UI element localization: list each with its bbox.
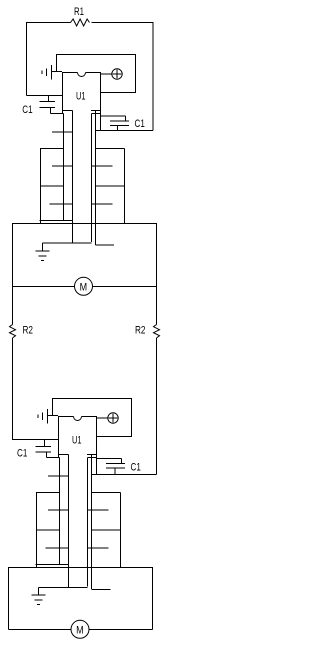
svg-text:M: M <box>80 282 88 294</box>
wire housing box top U1b <box>52 398 132 400</box>
svg-text:R2: R2 <box>23 325 34 337</box>
resistor R2 left <box>10 325 16 339</box>
connector tooth t4 right <box>92 203 113 205</box>
connector tooth t1 left <box>40 148 64 150</box>
wire neck rail B' right (top block) <box>95 111 97 246</box>
wire right vertical of R1 loop <box>152 23 154 131</box>
svg-text:C1: C1 <box>131 461 141 473</box>
wire bus stub right (top chassis) <box>96 244 115 246</box>
svg-text:U1: U1 <box>76 91 86 103</box>
svg-text:C1: C1 <box>135 118 145 130</box>
wire housing box left edge U1a <box>56 55 58 73</box>
box chassis (bottom block) <box>9 568 153 630</box>
wire ground to U1b pin <box>48 415 59 417</box>
svg-text:R1: R1 <box>74 6 84 18</box>
motor M (bottom) <box>71 620 89 638</box>
wire neck rail B left (bottom block) <box>59 458 61 565</box>
connector tooth t3 right <box>96 185 125 187</box>
svg-text:C1: C1 <box>17 447 27 459</box>
op-amp U1 (top IC body) <box>63 73 101 111</box>
power terminal plus U1a <box>112 69 122 79</box>
connector tooth t3 left b <box>36 529 60 531</box>
connector tooth t5 left <box>40 220 73 222</box>
connector tooth t2 right b <box>88 509 109 511</box>
motor M (top) <box>75 277 93 295</box>
capacitor C1 (bottom-right) <box>106 459 125 475</box>
svg-text:U1: U1 <box>72 435 82 447</box>
connector tooth t1 right <box>96 148 125 150</box>
wire housing box bottom edge U1a <box>101 92 136 94</box>
wire C1 bottom to right R2 wire <box>92 474 157 476</box>
wire U1a to plus terminal <box>101 73 112 75</box>
wire U1b to plus terminal <box>97 417 108 419</box>
svg-text:M: M <box>76 625 84 637</box>
capacitor C1 (bottom-left) <box>36 440 52 458</box>
wire outer rail C right <box>124 149 126 224</box>
ground (bottom block chassis) <box>32 588 46 605</box>
wire top loop left lead <box>26 22 71 24</box>
wire C1 bottom lead to rail <box>51 111 64 114</box>
resistor R1 <box>71 19 90 26</box>
wire chassis bottom right of motor <box>93 286 157 288</box>
svg-text:C1: C1 <box>22 104 32 116</box>
wire housing box right edge U1b <box>131 399 133 438</box>
box chassis (top block) <box>13 224 157 287</box>
wire left chassis to R2 <box>12 287 14 325</box>
wire housing box left edge U1b <box>52 399 54 417</box>
connector tooth t4 right b <box>88 547 109 549</box>
resistor R2 right <box>154 325 160 339</box>
wire neck rail A' right (top block) <box>92 114 101 243</box>
wire right pin bar U1b <box>97 455 122 475</box>
connector tooth t3 left <box>40 185 64 187</box>
connector tooth t0 left <box>52 131 73 133</box>
wire chassis bottom right of motor b <box>89 629 153 631</box>
ground sideways at U1a <box>42 65 52 80</box>
svg-text:R2: R2 <box>135 325 146 337</box>
wire right pin bar U1a <box>101 111 126 131</box>
wire housing box right edge U1a <box>135 55 137 94</box>
wire neck rail B' right (bottom block) <box>91 455 93 590</box>
wire top loop right lead <box>92 22 154 24</box>
wire R2 left down <box>12 338 14 440</box>
wire bus stub right (bottom chassis) <box>92 589 111 591</box>
wire ground bus (bottom chassis) <box>39 587 88 589</box>
wire C1 bottom lead to rail b <box>47 455 60 458</box>
connector tooth t2 right <box>92 165 113 167</box>
connector tooth t2 left b <box>48 509 69 511</box>
wire left pin U1a <box>27 95 63 97</box>
wire housing box top U1a <box>56 54 136 56</box>
wire ground bus (top chassis) <box>43 242 92 244</box>
ground sideways at U1b <box>38 409 48 424</box>
wire ground to U1a pin <box>52 71 63 73</box>
wire C1 bottom to right loop <box>96 130 154 132</box>
wire left vertical of R1 loop <box>26 23 28 96</box>
connector tooth t2 left <box>52 165 73 167</box>
wire R2 right down <box>156 338 158 475</box>
connector tooth t1 right b <box>92 492 121 494</box>
op-amp U1 (bottom IC body) <box>59 417 97 455</box>
wire left pin U1b <box>13 439 59 441</box>
wire neck rail B left (top block) <box>63 114 65 221</box>
connector tooth t5 left b <box>36 564 69 566</box>
wire outer rail C left b <box>36 493 38 568</box>
ground (top block chassis) <box>36 243 50 261</box>
wire neck rail A left (bottom block) <box>68 455 70 588</box>
wire outer rail C left <box>40 149 42 224</box>
connector tooth t4 left <box>50 203 73 205</box>
capacitor C1 (top-left) <box>40 96 56 114</box>
power terminal plus U1b <box>108 413 118 423</box>
connector tooth t1 left b <box>36 492 60 494</box>
connector tooth t3 right b <box>92 529 121 531</box>
connector tooth t0 left b <box>48 475 69 477</box>
wire chassis bottom left of motor b <box>9 629 72 631</box>
wire neck rail A' right (bottom block) <box>88 458 97 587</box>
wire housing box bottom edge U1b <box>97 436 132 438</box>
wire chassis bottom left of motor <box>13 286 75 288</box>
wire outer rail C right b <box>120 493 122 568</box>
capacitor C1 (top-right) <box>110 116 129 131</box>
wire right chassis to R2 <box>156 287 158 325</box>
wire neck rail A left (top block) <box>72 111 74 244</box>
connector tooth t4 left b <box>46 547 69 549</box>
